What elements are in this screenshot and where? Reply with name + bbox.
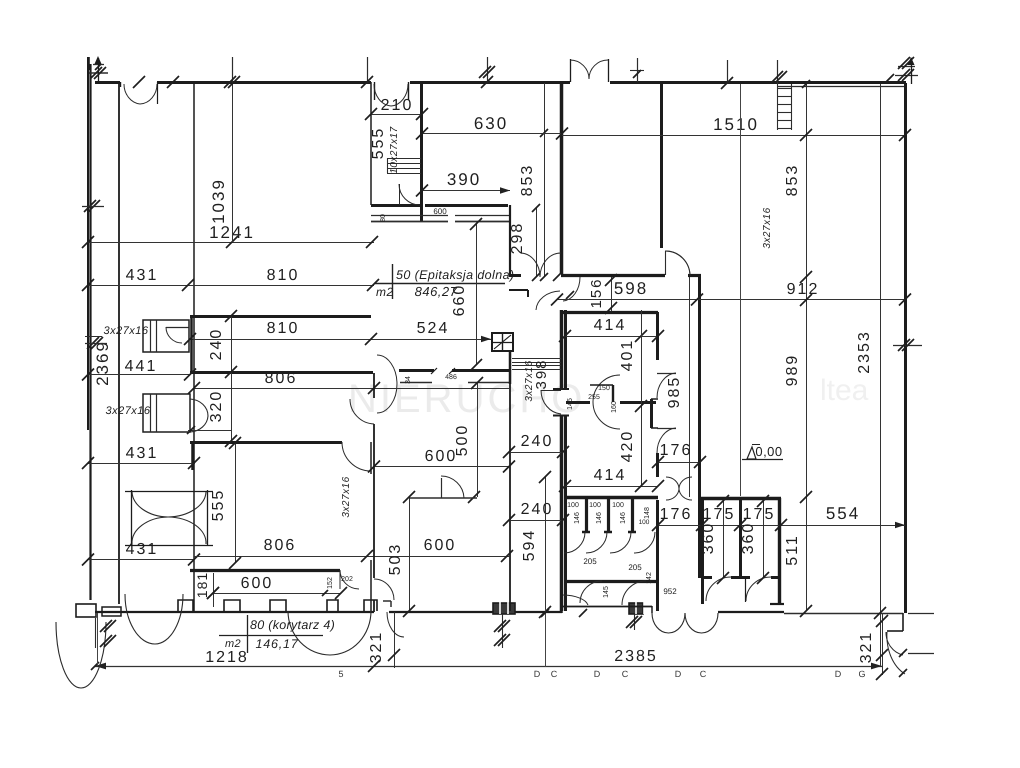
svg-text:431: 431 [126,445,159,462]
svg-text:660: 660 [451,284,468,317]
svg-text:100: 100 [589,502,601,509]
svg-text:152: 152 [327,577,334,589]
svg-text:146: 146 [620,512,627,524]
svg-text:524: 524 [417,320,450,337]
svg-text:205: 205 [628,563,642,572]
svg-text:989: 989 [784,354,801,387]
svg-text:34: 34 [405,376,412,384]
svg-text:600: 600 [241,575,274,592]
svg-text:5: 5 [338,669,343,679]
svg-text:806: 806 [265,370,298,387]
svg-text:C: C [622,669,629,679]
svg-text:420: 420 [619,430,636,463]
svg-text:401: 401 [619,339,636,372]
svg-text:240: 240 [521,433,554,450]
svg-text:598: 598 [614,279,648,298]
svg-text:255: 255 [588,394,600,401]
svg-text:414: 414 [594,467,627,484]
svg-text:3x27x16: 3x27x16 [105,405,150,417]
svg-text:80: 80 [380,214,387,222]
svg-text:360: 360 [740,522,757,555]
svg-text:10x27x17: 10x27x17 [389,126,400,173]
svg-text:554: 554 [826,504,860,523]
svg-text:2385: 2385 [614,648,658,665]
svg-text:555: 555 [370,127,387,160]
svg-text:C: C [700,669,707,679]
svg-text:985: 985 [666,376,683,409]
svg-text:853: 853 [519,164,536,197]
svg-text:320: 320 [208,390,225,423]
svg-text:100: 100 [639,519,650,526]
svg-text:146,17: 146,17 [255,637,298,651]
svg-text:146: 146 [596,512,603,524]
svg-text:441: 441 [125,358,158,375]
svg-text:205: 205 [583,557,597,566]
svg-text:210: 210 [381,97,414,114]
svg-text:240: 240 [521,501,554,518]
svg-text:431: 431 [126,267,159,284]
svg-text:145: 145 [603,586,610,598]
svg-text:600: 600 [425,448,458,465]
svg-text:100: 100 [612,502,624,509]
svg-text:853: 853 [784,164,801,197]
svg-text:2369: 2369 [93,340,112,386]
svg-text:500: 500 [454,424,471,457]
svg-text:594: 594 [521,529,538,562]
svg-text:431: 431 [126,541,159,558]
svg-text:630: 630 [474,114,508,133]
svg-text:321: 321 [858,631,875,664]
svg-text:175: 175 [703,506,736,523]
svg-text:ltea: ltea [820,374,869,407]
svg-text:50 (Epitaksja dolna): 50 (Epitaksja dolna) [396,268,514,282]
svg-text:D: D [594,669,601,679]
svg-text:390: 390 [447,170,481,189]
svg-text:148: 148 [644,507,651,519]
svg-text:m2: m2 [376,285,394,299]
svg-text:810: 810 [267,320,300,337]
svg-text:414: 414 [594,317,627,334]
svg-text:3x27x16: 3x27x16 [103,325,148,337]
svg-text:1039: 1039 [209,178,228,224]
svg-text:1218: 1218 [205,649,249,666]
svg-text:810: 810 [267,267,300,284]
svg-text:600: 600 [433,207,447,216]
svg-text:1510: 1510 [713,115,759,134]
svg-text:181: 181 [194,572,210,598]
svg-text:912: 912 [787,281,820,298]
svg-text:486: 486 [445,374,457,381]
svg-text:C: C [551,669,558,679]
svg-text:398: 398 [533,358,550,389]
svg-text:D: D [675,669,682,679]
svg-text:m2: m2 [225,638,241,650]
svg-text:503: 503 [387,543,404,576]
svg-text:511: 511 [784,534,801,566]
svg-text:175: 175 [743,506,776,523]
svg-text:202: 202 [341,576,353,583]
svg-text:3x27x16: 3x27x16 [341,476,352,517]
svg-text:2353: 2353 [856,330,873,374]
svg-text:3x27x16: 3x27x16 [762,207,773,248]
svg-text:146: 146 [574,512,581,524]
svg-text:D: D [534,669,541,679]
svg-text:240: 240 [208,328,225,361]
svg-text:156: 156 [588,277,605,308]
svg-text:80 (korytarz 4): 80 (korytarz 4) [250,618,335,632]
svg-text:160: 160 [611,401,618,413]
svg-text:0,00: 0,00 [755,444,782,459]
svg-text:176: 176 [660,506,693,523]
svg-text:555: 555 [210,489,227,522]
svg-text:600: 600 [424,537,457,554]
svg-text:150: 150 [598,385,610,392]
svg-text:360: 360 [700,522,717,555]
svg-text:G: G [858,669,865,679]
svg-text:142: 142 [646,572,653,584]
svg-text:100: 100 [567,502,579,509]
svg-text:952: 952 [663,587,677,596]
svg-text:321: 321 [368,631,385,664]
svg-text:806: 806 [264,537,297,554]
svg-text:298: 298 [509,222,526,255]
svg-text:176: 176 [660,442,693,459]
svg-text:D: D [835,669,842,679]
